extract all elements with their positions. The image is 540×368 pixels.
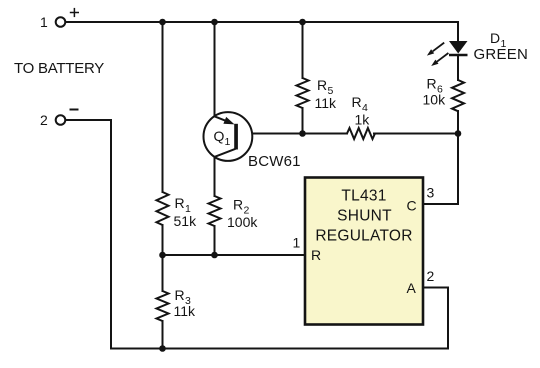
wire bottom rail y=348.5 bbox=[111, 348, 448, 350]
wire Q1 top x=214.5 bbox=[214, 22, 216, 116]
svg-text:R: R bbox=[317, 77, 327, 93]
wire R2 bottom to node bbox=[214, 226, 216, 255]
svg-text:R: R bbox=[427, 76, 437, 92]
wire terminal2 to left drop bbox=[67, 120, 112, 349]
svg-text:1: 1 bbox=[40, 14, 48, 30]
wire Q1 bottom to R2 bbox=[214, 157, 216, 196]
svg-text:11k: 11k bbox=[315, 95, 338, 111]
resistor R5 bbox=[297, 78, 309, 108]
node dot R4/R6 bbox=[455, 130, 462, 137]
plus sign bbox=[70, 8, 79, 17]
terminal 2 bbox=[56, 115, 66, 125]
svg-text:1: 1 bbox=[225, 136, 231, 148]
svg-text:BCW61: BCW61 bbox=[248, 153, 301, 170]
node dot R2/rail bbox=[211, 252, 218, 259]
wire pin A bbox=[423, 288, 448, 349]
svg-text:REGULATOR: REGULATOR bbox=[315, 228, 412, 245]
LED D1 bbox=[449, 41, 468, 54]
svg-text:11k: 11k bbox=[174, 303, 197, 319]
wire R5 bottom to node bbox=[302, 108, 304, 134]
svg-text:2: 2 bbox=[427, 268, 435, 284]
svg-text:SHUNT: SHUNT bbox=[337, 208, 392, 225]
node dot top Q1 bbox=[211, 19, 218, 26]
resistor R2 bbox=[209, 196, 221, 226]
svg-text:R: R bbox=[233, 197, 243, 213]
resistor R6 bbox=[452, 80, 464, 111]
svg-text:TO BATTERY: TO BATTERY bbox=[14, 60, 104, 77]
LED emission arrow 1 bbox=[427, 43, 444, 56]
svg-text:10k: 10k bbox=[423, 92, 447, 108]
wire pin C horizontal bbox=[423, 203, 458, 205]
svg-text:R: R bbox=[352, 94, 362, 110]
transistor Q1 bbox=[204, 112, 253, 161]
svg-text:100k: 100k bbox=[227, 214, 258, 230]
resistor R1 bbox=[157, 192, 169, 225]
svg-text:R: R bbox=[175, 287, 185, 303]
node dot top R5 bbox=[299, 19, 306, 26]
svg-text:D: D bbox=[490, 30, 500, 46]
node dot top R1 bbox=[159, 19, 166, 26]
wire R5 branch x=302.5 bbox=[302, 22, 304, 78]
svg-text:R: R bbox=[311, 247, 321, 263]
svg-text:R: R bbox=[175, 195, 185, 211]
LED emission arrow 2 bbox=[431, 53, 448, 66]
wire R6 to node C-branch bbox=[457, 111, 459, 204]
wire LED branch x=458 top bbox=[457, 22, 459, 41]
svg-text:C: C bbox=[407, 198, 417, 214]
svg-text:A: A bbox=[407, 280, 417, 296]
wire R1 branch x=162.5 bbox=[162, 22, 164, 192]
svg-text:2: 2 bbox=[40, 112, 48, 128]
wire R3 to bottom rail bbox=[162, 321, 164, 349]
wire top rail y=22 bbox=[66, 21, 459, 23]
node dot R1/rail bbox=[159, 252, 166, 259]
Q1 emitter with arrow bbox=[214, 116, 228, 121]
Q1 collector bbox=[214, 149, 235, 157]
svg-text:Q: Q bbox=[214, 128, 225, 144]
svg-text:TL431: TL431 bbox=[341, 188, 386, 205]
wire node to R3 bbox=[162, 255, 164, 291]
svg-text:1: 1 bbox=[293, 235, 301, 251]
wire reference rail y=255 bbox=[163, 254, 307, 256]
terminal 1 bbox=[56, 17, 66, 27]
resistor R3 bbox=[157, 291, 169, 321]
wire base rail y=133.5 bbox=[237, 133, 347, 135]
minus sign bbox=[70, 109, 79, 111]
node dot R3/bottom bbox=[159, 345, 166, 352]
IC U1 TL431 shunt regulator box bbox=[305, 178, 423, 325]
node dot R5/R4 bbox=[299, 130, 306, 137]
svg-text:1k: 1k bbox=[355, 112, 371, 128]
svg-text:3: 3 bbox=[427, 185, 435, 201]
wire R1 bottom to node bbox=[162, 225, 164, 255]
wire R4 to LED branch bbox=[374, 133, 458, 135]
wire LED to R6 bbox=[457, 56, 459, 80]
resistor R4 bbox=[347, 128, 375, 139]
svg-text:51k: 51k bbox=[174, 213, 198, 229]
Q1 base bar bbox=[234, 124, 238, 150]
svg-text:GREEN: GREEN bbox=[474, 46, 529, 63]
